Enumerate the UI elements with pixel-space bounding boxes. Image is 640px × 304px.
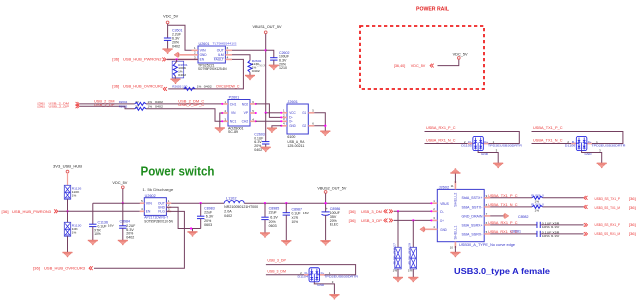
ground arrow (J2602 GND pin4) [420, 227, 424, 233]
ground (below R1127) [393, 277, 403, 282]
svg-text:SOT95P280X110-5N: SOT95P280X110-5N [144, 220, 173, 224]
svg-text:1%: 1% [72, 193, 77, 197]
ground (J2601 shield) [321, 131, 331, 136]
svg-text:D-: D- [440, 210, 444, 214]
wire P2601 VN to ground [220, 113, 222, 128]
svg-text:10%: 10% [94, 232, 101, 236]
wire 3V3 to R1126 [67, 173, 69, 185]
wire to USB3_SS_RX1_P tag [540, 224, 583, 226]
resistor R1127 45.3K [397, 211, 399, 247]
ground (U2602 GND / C8983) [192, 229, 194, 232]
svg-text:USB3_SS_RX1_P: USB3_SS_RX1_P [595, 223, 621, 227]
wire VDC_5V down through C2601 to ground [167, 24, 169, 38]
svg-text:[36]: [36] [112, 58, 119, 62]
svg-text:[36]: [36] [112, 85, 119, 89]
svg-text:D+: D+ [289, 120, 293, 124]
capacitor C8987 0.1UF [285, 202, 287, 204]
capacitor C1136 0.1UF [89, 223, 96, 225]
junction (EN / R2601) [175, 58, 177, 60]
svg-text:U2601: U2601 [199, 42, 210, 46]
svg-text:0603: 0603 [204, 223, 212, 227]
svg-text:USB3_SS_RX1_M: USB3_SS_RX1_M [595, 232, 621, 236]
svg-text:FLG: FLG [158, 210, 165, 214]
svg-text:USB_2_DP_C: USB_2_DP_C [178, 103, 205, 107]
svg-text:EN: EN [200, 58, 205, 62]
svg-text:TPD2EUSB30DRTR: TPD2EUSB30DRTR [324, 275, 359, 279]
svg-text:0402: 0402 [126, 236, 134, 240]
svg-text:CH1: CH1 [230, 102, 237, 106]
svg-text:[36]: [36] [349, 210, 356, 214]
svg-text:C8981: C8981 [511, 229, 522, 233]
svg-text:45.3K_R1129: 45.3K_R1129 [408, 243, 412, 265]
svg-text:EN: EN [146, 210, 151, 214]
wire R2605 to P2601 pin3 (USB_2_DP_C) [146, 109, 222, 122]
junction (OUT/C8983) [200, 202, 202, 204]
IC U2601 TPS25221 [198, 46, 225, 63]
ground (below C8984) [118, 240, 128, 245]
svg-text:USB_3_DP: USB_3_DP [267, 259, 286, 263]
svg-text:1%: 1% [535, 209, 540, 213]
wire VBUS1 to J2601 VCC [266, 112, 282, 114]
ground (below C8985) [260, 233, 270, 238]
svg-text:USB_HUB_PWRON2: USB_HUB_PWRON2 [123, 58, 162, 62]
svg-text:Power switch: Power switch [141, 164, 215, 179]
svg-text:10: 10 [450, 245, 454, 249]
svg-text:USB_2_DP: USB_2_DP [49, 105, 70, 109]
wire USB_2_DP to R2605 [80, 106, 135, 109]
wire D1106 GND pin3 to ground [582, 151, 602, 163]
svg-text:0402: 0402 [178, 73, 186, 77]
svg-text:StdA_SSRX+: StdA_SSRX+ [462, 223, 483, 227]
svg-text:P2601: P2601 [229, 96, 240, 100]
junction (VBUS1/VCC) [265, 112, 267, 114]
junction (G1/G2) [324, 125, 326, 127]
svg-text:GND_DRAIN: GND_DRAIN [462, 214, 484, 218]
svg-text:[36]: [36] [349, 219, 356, 223]
junction (GND/C8983 bottom) [190, 227, 192, 229]
svg-text:USB_HUB_OVRCUR2: USB_HUB_OVRCUR2 [123, 85, 163, 89]
wire VBUS2 rail to J2602 VBUS [244, 202, 431, 204]
ground (J2601 GND) [267, 128, 277, 133]
svg-text:0402: 0402 [155, 105, 163, 109]
svg-text:GND: GND [289, 124, 296, 128]
ESD diode D1104 TPD2EUSB30DRTR [304, 274, 309, 276]
wire USB_3_DM to J2602 D- [394, 210, 432, 212]
svg-text:J2602: J2602 [439, 186, 450, 190]
svg-text:6.3V: 6.3V [206, 215, 214, 219]
svg-text:SHELL1: SHELL1 [454, 225, 458, 239]
svg-text:1%: 1% [72, 230, 77, 234]
svg-text:VDC_5V: VDC_5V [453, 52, 469, 56]
capacitor C8984 2.2UF [119, 225, 126, 227]
wire U2602 OUT to L1102 [171, 202, 224, 204]
svg-text:2.0A: 2.0A [224, 210, 232, 214]
wire VBUS1 vertical to J2601 VCC [265, 34, 267, 113]
svg-text:22uF: 22uF [269, 210, 277, 214]
wire VBUS1 down to C2603 [265, 113, 267, 142]
svg-text:0402: 0402 [254, 148, 262, 152]
wire pin8 TX1_N to R [490, 206, 532, 208]
svg-text:D1104: D1104 [298, 275, 309, 279]
svg-text:1210: 1210 [279, 66, 287, 70]
pin stubs U2601 right pins 6,5,4 [225, 49, 232, 51]
svg-text:StdA_SSTX-: StdA_SSTX- [462, 205, 483, 209]
wire U2602 GND to ground [166, 207, 200, 228]
ground (below C2603) [261, 147, 271, 152]
pin stubs J2601 G1,G2 [308, 112, 314, 114]
svg-text:USB30_A_TYPE_No curve edge: USB30_A_TYPE_No curve edge [459, 243, 515, 247]
svg-text:L1102: L1102 [226, 196, 237, 200]
svg-text:VBUS: VBUS [440, 202, 449, 206]
wire USB_3_DP to J2602 D+ [394, 219, 432, 221]
ESD protection P2601 AOZ8001 [228, 100, 250, 127]
svg-text:USB3_SS_TX1_P: USB3_SS_TX1_P [595, 197, 621, 201]
wire R1130 to ground [67, 236, 69, 252]
svg-text:NR210050121HT000: NR210050121HT000 [224, 205, 258, 209]
svg-text:U2602: U2602 [145, 194, 156, 198]
svg-text:0402: 0402 [252, 69, 260, 73]
ground (below C8986) [321, 240, 331, 245]
resistor R1130 10K [64, 222, 70, 236]
resistor R2602 113K (ILM) [232, 55, 250, 61]
wire R2604 to P2601 pin1 (USB_2_DM_C) [146, 103, 222, 105]
wire USBA_RX1_P_C to ESD D+ [425, 132, 520, 144]
pin stubs U2602 [140, 202, 145, 204]
ground (J2602 pin11, pointing up) [451, 169, 461, 174]
wire to USB3_SS_RX1_M tag [540, 233, 583, 235]
svg-text:USB3.0_type A female: USB3.0_type A female [454, 266, 550, 276]
svg-text:D1105: D1105 [461, 143, 472, 147]
wire to USB3_SS_TX1_P tag [543, 197, 584, 199]
ground arrow (U2601 GND pin) [174, 52, 178, 58]
junction (PWRON3/R1126) [66, 210, 68, 212]
svg-text:VIN: VIN [146, 201, 153, 205]
svg-text:FAULT: FAULT [214, 58, 224, 62]
ground arrow (GND_DRAIN, pointing right) [505, 213, 509, 219]
pin 11 shield to ground (up) [454, 181, 456, 189]
wire USB_3_DM to ESD D- [266, 274, 304, 276]
svg-text:ILM: ILM [218, 53, 224, 57]
ground (below D1104) [330, 294, 340, 299]
svg-text:POWER RAIL: POWER RAIL [416, 7, 450, 13]
svg-text:1%: 1% [393, 269, 398, 273]
ground (below R2601) [171, 79, 181, 84]
svg-text:OUT: OUT [217, 49, 224, 53]
pin stubs J2602 right 9-5 [484, 197, 490, 199]
svg-text:0402: 0402 [172, 44, 180, 48]
svg-text:USBA_TX1_P_C: USBA_TX1_P_C [488, 194, 518, 198]
wire VDC down to C8984 [122, 203, 124, 226]
svg-text:SOT95P290X125-6N: SOT95P290X125-6N [198, 67, 227, 71]
junction (DM/R1127) [397, 210, 399, 212]
capacitor C8981 (series, RX1_N) [490, 233, 537, 235]
svg-text:3V3_USB_HUB: 3V3_USB_HUB [53, 165, 83, 169]
svg-text:45.3K_R1127: 45.3K_R1127 [392, 243, 396, 265]
ground (below R2602) [245, 75, 255, 80]
wire D1104 GND pin3 to ground [314, 282, 334, 294]
svg-text:USB_3_DP: USB_3_DP [361, 219, 383, 223]
svg-text:16V: 16V [108, 223, 115, 227]
ground (below D1105) [493, 163, 503, 168]
pin stubs U2601 left pins 1,2,3 [192, 49, 199, 51]
svg-text:D+: D+ [440, 219, 444, 223]
svg-text:NO2: NO2 [242, 102, 249, 106]
svg-text:+: + [326, 207, 328, 211]
svg-text:OVCURDW_C: OVCURDW_C [216, 85, 240, 89]
svg-text:[36]: [36] [629, 223, 636, 227]
capacitor C2602 100UF [266, 50, 274, 57]
svg-text:[36]: [36] [38, 105, 45, 109]
svg-text:11: 11 [451, 184, 454, 188]
connector J2602 USB3.0 type A [437, 189, 484, 241]
power rail dashed border box [360, 26, 484, 89]
svg-text:[36]: [36] [2, 210, 9, 214]
wire pin9 TX1_P to R [490, 197, 532, 199]
svg-text:D1106: D1106 [565, 143, 576, 147]
svg-text:0402: 0402 [224, 214, 232, 218]
svg-text:USB3_SS_TX1_M: USB3_SS_TX1_M [595, 206, 621, 210]
svg-text:[36]: [36] [629, 197, 636, 201]
svg-text:VP: VP [244, 111, 249, 115]
svg-text:125-00211: 125-00211 [287, 144, 304, 148]
wire R1126 to junction to R1130 [67, 199, 69, 222]
svg-text:GND: GND [440, 228, 447, 232]
resistor R1129 45.3K [412, 220, 414, 247]
wire USBA_RX1_N_C to ESD D- [425, 143, 468, 145]
svg-text:VIN: VIN [200, 49, 207, 53]
wire U2602 FLG to OVRCUR3 [94, 211, 184, 268]
junction (DP/R1129) [412, 219, 414, 221]
svg-text:StdA_SSTX+: StdA_SSTX+ [462, 196, 483, 200]
pin stubs J2602 left 1-4 [431, 202, 437, 204]
svg-text:SC-89: SC-89 [228, 130, 238, 134]
wire USB_HUB_PWRON2 to EN [167, 58, 199, 60]
svg-text:VBUS2_OUT_5V: VBUS2_OUT_5V [317, 186, 347, 190]
svg-text:TLT9M55441/S: TLT9M55441/S [213, 42, 237, 46]
svg-text:USB_3_DM: USB_3_DM [267, 269, 286, 273]
wire FAULT to OVRCUR2 [168, 59, 243, 89]
capacitor C2603 0.1UF [262, 141, 269, 143]
svg-text:0603: 0603 [269, 224, 277, 228]
wire VDC_5V tag to power symbol [438, 59, 459, 65]
svg-text:6100: 6100 [287, 135, 295, 139]
wire VDC_5V branch to U2601 VIN [168, 25, 198, 50]
svg-text:USB_HUB_PWRON3: USB_HUB_PWRON3 [12, 210, 51, 214]
svg-text:[36]: [36] [629, 206, 636, 210]
svg-text:USBA_RX1_N_C: USBA_RX1_N_C [426, 138, 456, 142]
wire U2601 OUT to VBUS1 [232, 49, 266, 51]
wire USBA_TX1_N_C to ESD D- [532, 143, 572, 145]
svg-text:GND: GND [317, 283, 325, 287]
capacitor C8985 22uF [264, 202, 266, 204]
connector J2601 USB_A_RA [287, 104, 308, 134]
svg-text:6.3V: 6.3V [270, 216, 278, 220]
svg-text:1. 5k Discharge: 1. 5k Discharge [142, 188, 173, 192]
capacitor C8986 100UF electrolytic [325, 203, 327, 212]
svg-text:SHELL2: SHELL2 [454, 192, 458, 206]
svg-text:VDC_5V: VDC_5V [163, 14, 179, 18]
svg-text:USBA_TX1_N_C: USBA_TX1_N_C [533, 138, 563, 142]
svg-text:USBA_TX1_N_C: USBA_TX1_N_C [488, 203, 518, 207]
wire USBA_TX1_P_C to ESD D+ [532, 132, 623, 144]
wire USB_HUB_PWRON3 to U2602 EN [58, 210, 140, 212]
svg-text:16V: 16V [303, 211, 310, 215]
svg-text:VBUS1_OUT_5V: VBUS1_OUT_5V [253, 25, 283, 29]
pin stubs P2601 [222, 103, 228, 105]
svg-text:TPD2EUSB30DRTR: TPD2EUSB30DRTR [488, 143, 523, 147]
ESD diode D1106 TPD2EUSB30DRTR [571, 143, 576, 145]
svg-text:USB_3_DM: USB_3_DM [361, 210, 382, 214]
svg-text:ELEC: ELEC [330, 223, 339, 227]
svg-text:VDC_5V: VDC_5V [112, 181, 128, 185]
ground (below R1130) [63, 252, 73, 257]
svg-text:G2: G2 [302, 124, 306, 128]
svg-text:0402: 0402 [204, 85, 212, 89]
ground (below C2602) [269, 65, 279, 70]
svg-text:[36]: [36] [629, 232, 636, 236]
wire VDC_5V down to VIN rail [122, 189, 124, 204]
wire P2601 NO2 to J2601 D- [256, 104, 281, 118]
svg-text:VCC: VCC [289, 111, 296, 115]
ground (below C8987) [282, 240, 292, 245]
junction (OUT/VBUS1) [265, 49, 267, 51]
svg-text:StdA_SSRX-: StdA_SSRX- [462, 232, 483, 236]
ground (below C1136) [88, 240, 98, 245]
wire USB_2_DM to R2604 [80, 103, 135, 105]
wire VIN rail [93, 202, 145, 204]
svg-text:10%: 10% [292, 220, 299, 224]
svg-text:USBA_RX1_P_C: USBA_RX1_P_C [426, 126, 456, 130]
svg-text:Check: Check [257, 63, 266, 67]
svg-text:J2601: J2601 [287, 100, 298, 104]
power symbol VDC_5V [457, 57, 460, 60]
svg-text:GND: GND [585, 152, 593, 156]
capacitor C8983 22uF [200, 203, 202, 216]
svg-text:R2605: R2605 [119, 105, 128, 109]
svg-text:USBA_RX1_P_C: USBA_RX1_P_C [488, 221, 518, 225]
svg-text:USB_HUB_OVRCUR3: USB_HUB_OVRCUR3 [44, 267, 85, 271]
svg-text:C8984: C8984 [120, 219, 131, 223]
wire D1105 GND pin3 to ground [478, 151, 498, 163]
ground (J2602 pin10) [451, 252, 461, 257]
svg-text:VDC_5V: VDC_5V [411, 64, 426, 68]
svg-text:[36,40]: [36,40] [394, 64, 406, 68]
svg-text:VN: VN [231, 111, 236, 115]
wire J2601 GND to ground [272, 126, 281, 128]
wire P2601 CH2 to J2601 D+ [256, 120, 281, 122]
svg-text:G1: G1 [302, 111, 306, 115]
ground (below C2601) [163, 49, 173, 54]
pin 10 shield to ground (down) [454, 242, 456, 248]
ground (P2601 VN) [215, 128, 225, 133]
wire pin7 GND_DRAIN [490, 215, 503, 217]
svg-text:10% 6.3V: 10% 6.3V [542, 234, 560, 238]
svg-text:TPD2EUSB30DRTR: TPD2EUSB30DRTR [591, 143, 626, 147]
svg-text:GND: GND [200, 53, 208, 57]
svg-text:1%: 1% [197, 85, 202, 89]
svg-text:USBA_TX1_P_C: USBA_TX1_P_C [533, 126, 563, 130]
junction (VDC/VIN rail) [122, 202, 124, 204]
wire to USB3_SS_TX1_M tag [543, 206, 584, 208]
svg-text:GND: GND [481, 152, 489, 156]
svg-text:CH2: CH2 [242, 120, 249, 124]
resistor R1126 110K [64, 185, 70, 199]
resistor R2601 100K [172, 61, 184, 78]
svg-text:C8982: C8982 [518, 215, 529, 219]
ground (below D1106) [597, 163, 607, 168]
svg-text:10% 6.3V: 10% 6.3V [542, 225, 560, 229]
wire USB_3_DP to ESD D+ [266, 265, 356, 275]
pin stubs J2601 1-4 [281, 112, 287, 114]
ground (below R1129) [409, 277, 419, 282]
svg-text:1%: 1% [408, 269, 413, 273]
svg-text:[36]: [36] [33, 267, 40, 271]
svg-text:NC1: NC1 [230, 120, 237, 124]
capacitor C2601 [164, 37, 171, 39]
svg-text:1%: 1% [148, 105, 153, 109]
ESD diode D1105 TPD2EUSB30DRTR [468, 143, 473, 145]
wire down to C1136 [92, 203, 94, 224]
wire J2601 shield to ground [314, 113, 325, 126]
